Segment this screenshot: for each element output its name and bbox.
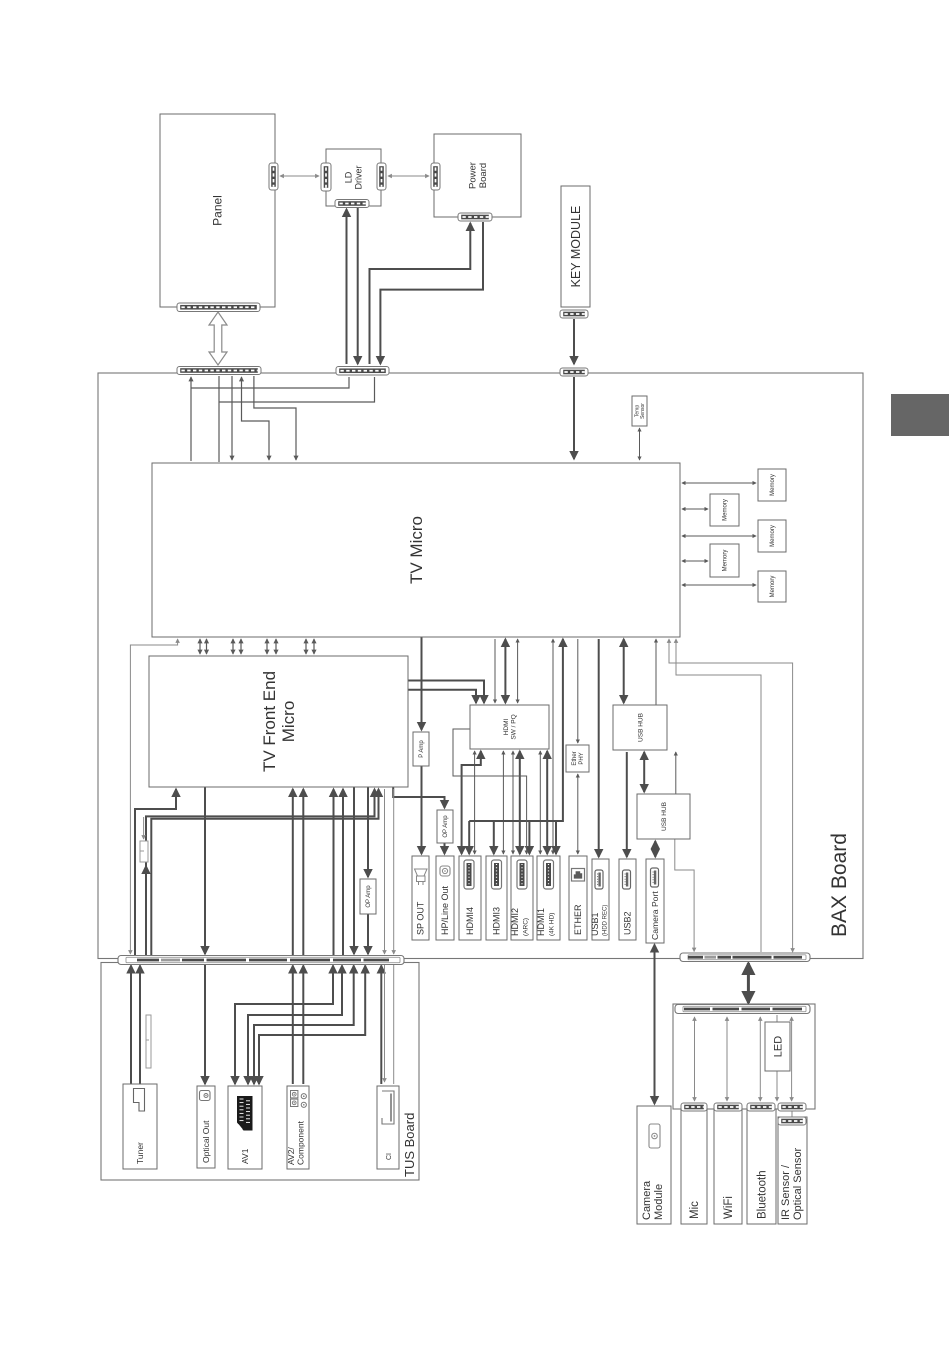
connector sub-board WiFi — [714, 1103, 742, 1111]
svg-text:ETHER: ETHER — [573, 904, 583, 935]
wire sub-board to IR Sensor — [791, 1017, 793, 1101]
board TUS Board — [101, 963, 419, 1181]
wire TUS connector to AV2 B — [302, 966, 304, 1085]
wire Panel to LD Driver — [280, 175, 319, 177]
wire TUS connector to Tuner A — [130, 966, 132, 1085]
svg-text:Memory: Memory — [723, 499, 729, 521]
wire LD Driver to Power Board — [388, 175, 429, 177]
wire KEY MODULE to BAX — [573, 319, 575, 364]
block Optical Out — [197, 1086, 215, 1168]
wire USB HUB1 to USB HUB2 thin — [675, 752, 677, 794]
svg-text:Tuner: Tuner — [135, 1142, 145, 1164]
svg-text:BAX Board: BAX Board — [828, 833, 851, 937]
wire TUS connector to CI dark — [380, 966, 382, 1085]
connector Power Board bottom — [458, 213, 492, 221]
wire TV Front End to HDMI SW b — [408, 690, 476, 703]
wire AV1 down C — [353, 787, 355, 954]
port ETHER — [569, 856, 587, 940]
block Temp Sensor — [632, 396, 647, 426]
wire TV Micro to USB1 — [598, 639, 600, 857]
part antenna link — [146, 1015, 151, 1068]
wire HDMI SW to HDMI1 thick — [546, 751, 548, 854]
connector LD Driver bottom — [335, 200, 369, 208]
wire TV Micro to USB HUB1 — [623, 639, 625, 703]
svg-text:Memory: Memory — [770, 576, 776, 598]
block P Amp — [413, 732, 429, 766]
wire TUS connector to AV1 4 — [259, 966, 365, 1085]
block AV1 — [228, 1086, 262, 1169]
svg-text:IR Sensor /: IR Sensor / — [780, 1164, 792, 1220]
svg-text:TV Micro: TV Micro — [407, 516, 426, 584]
wire TV Front End to HDMI SW a — [408, 681, 484, 704]
block AV2/Component — [287, 1086, 309, 1169]
wire USB HUB1 to USB HUB2 — [643, 752, 645, 792]
svg-text:Micro: Micro — [279, 701, 298, 743]
wire TV Micro to Memory 2 — [682, 508, 708, 510]
port HDMI1 — [537, 856, 560, 940]
wire TV Micro to HDMI1 long — [552, 639, 554, 854]
wire TV Micro - TV Front End pair 4 — [305, 639, 307, 654]
wire TUS connector to AV1 3 — [254, 966, 354, 1085]
svg-text:Module: Module — [653, 1184, 665, 1220]
wire AV1 up A — [333, 789, 335, 963]
connector sub-board IR — [778, 1103, 806, 1111]
svg-text:Power: Power — [468, 162, 479, 189]
wire Power Board to BAX B — [380, 222, 483, 364]
svg-text:HDMI: HDMI — [503, 719, 510, 736]
block Memory 3 — [758, 520, 786, 552]
port USB2 — [619, 859, 636, 940]
wire TV Front End to OP Amp 2 — [367, 787, 369, 877]
connector IR Sensor top — [778, 1117, 806, 1125]
block Camera Module — [637, 1106, 671, 1224]
wire TUS connector to CI thin A — [384, 965, 386, 1082]
wire HDMI SW to HDMI3 thin — [502, 751, 504, 854]
svg-text:Driver: Driver — [354, 165, 364, 189]
svg-text:OP Amp: OP Amp — [443, 815, 449, 838]
wire OP Amp 1 to HP/Line Out — [444, 843, 446, 854]
svg-text:(ARC): (ARC) — [523, 918, 530, 936]
connector sub-board Mic — [681, 1103, 707, 1111]
wire HDMI SW left jog to HDMI2 — [453, 729, 527, 854]
wire TV Micro to HDMI SW 2 — [504, 639, 506, 703]
wire TV Micro to Memory 5 — [682, 584, 756, 586]
svg-text:Camera: Camera — [641, 1180, 653, 1220]
block Memory 1 — [758, 469, 786, 501]
connector Panel bottom — [177, 303, 260, 312]
connector Panel right — [269, 163, 278, 190]
wire TV Micro L to BAX bottom connector 1 — [669, 639, 793, 952]
dark gray rectangle — [891, 394, 949, 436]
board BAX Board — [98, 373, 863, 959]
svg-text:Sensor: Sensor — [640, 403, 646, 419]
arrow Panel to BAX connector — [209, 312, 227, 365]
block LD Driver — [326, 149, 381, 206]
svg-text:LED: LED — [772, 1036, 784, 1057]
wire TV Micro to Memory 4 — [682, 560, 708, 562]
wire OP Amp 2 to TUS connector — [367, 914, 369, 954]
svg-text:Optical Sensor: Optical Sensor — [792, 1148, 804, 1220]
wire P Amp to SP OUT — [421, 766, 423, 854]
wire sub-board to Bluetooth — [759, 1017, 761, 1101]
wire Panel connector line B — [218, 376, 220, 462]
block Bluetooth — [747, 1109, 776, 1224]
svg-text:Board: Board — [478, 163, 489, 188]
wire HDMI SW to HDMI2 thin — [512, 751, 514, 854]
connector LD Driver right — [377, 163, 386, 190]
block CI slot — [377, 1086, 399, 1169]
port SP OUT — [412, 856, 429, 940]
port HDMI3 — [486, 856, 507, 940]
wire TV Front End left to TUS connector — [135, 789, 176, 956]
wire Panel connector line D — [242, 377, 270, 460]
wire Temp Sensor to TV Micro — [639, 428, 641, 460]
block USB HUB 1 — [613, 705, 667, 750]
wire TVMicro to Panel connector A — [190, 377, 192, 461]
wire sub-board to WiFi — [726, 1017, 728, 1101]
wire TV Micro to USB HUB1 thin — [655, 639, 657, 705]
svg-text:Mic: Mic — [689, 1201, 701, 1219]
block OP Amp 2 — [360, 879, 376, 914]
wire KEY MODULE to TV Micro — [573, 377, 575, 459]
port HDMI4 — [459, 856, 481, 940]
svg-text:OP Amp: OP Amp — [366, 885, 372, 908]
wire LD Driver to BAX up — [346, 209, 348, 364]
svg-text:AV2/: AV2/ — [286, 1147, 296, 1165]
block Memory 5 — [758, 571, 786, 602]
wire TV Micro to Memory 3 — [682, 535, 756, 537]
svg-text:USB2: USB2 — [623, 911, 633, 935]
wire part to TUS connector — [145, 866, 147, 956]
block Memory 2 — [710, 494, 739, 526]
wire HDMI SW to HDMI2 thick — [519, 751, 521, 854]
wire into IR blaster part — [143, 817, 145, 839]
wire USB HUB2 to Camera Port — [654, 841, 656, 857]
wire TV Front End to OP Amp 1 — [393, 787, 444, 808]
block Ether PHY — [566, 745, 589, 772]
wire Power Board to BAX A — [370, 223, 471, 364]
wire TUS connector to AV1 2 — [248, 966, 342, 1085]
wire Panel connector line E — [254, 376, 296, 460]
svg-text:SW / PQ: SW / PQ — [510, 714, 517, 739]
block TV Micro — [152, 463, 680, 637]
wire AV2 up A — [292, 789, 294, 963]
wire TV Front End mid down — [204, 787, 206, 954]
wire TV Micro - TV Front End pair 2 — [232, 639, 234, 654]
svg-text:TV Front End: TV Front End — [260, 671, 279, 772]
connector BAX bottom right — [680, 953, 810, 962]
wire TV Front End long L1 — [146, 789, 375, 956]
wire TV Micro to P Amp — [421, 637, 423, 730]
wire sub connector to IR connector — [791, 1111, 793, 1117]
wire Ether PHY to ETHER — [577, 774, 579, 854]
wire USB HUB1 to USB2 — [626, 752, 628, 857]
block Tuner — [123, 1084, 157, 1169]
block USB HUB 2 — [637, 794, 690, 839]
svg-text:TUS Board: TUS Board — [402, 1113, 417, 1177]
connector BAX/TUS main — [118, 956, 404, 965]
connector sub-board top — [675, 1005, 810, 1014]
connector BAX top panel — [177, 367, 261, 375]
block HDMI SW / PQ — [470, 705, 549, 749]
svg-text:PHY: PHY — [579, 752, 585, 764]
connector sub-board Bluetooth — [747, 1103, 775, 1111]
block Panel — [160, 114, 275, 307]
port HDMI2 — [511, 856, 533, 940]
svg-text:USB1: USB1 — [590, 912, 600, 936]
connector KEY MODULE bottom — [560, 310, 588, 318]
wire TV Micro to HDMI SW 1 — [494, 639, 496, 703]
svg-text:Memory: Memory — [770, 474, 776, 496]
svg-text:KEY MODULE: KEY MODULE — [569, 206, 583, 288]
wire USB HUB2 to BAX bottom connector — [675, 839, 694, 952]
connector BAX top LD/Power — [336, 367, 389, 376]
block TV Front End Micro — [149, 656, 408, 787]
wire TV Micro HDMI trunk — [469, 639, 563, 821]
svg-text:SP OUT: SP OUT — [416, 901, 426, 935]
wire BAX to sub-board — [747, 963, 750, 1003]
svg-text:(HDD REC): (HDD REC) — [603, 905, 609, 936]
wire TV Micro - TV Front End pair 3 — [266, 639, 268, 654]
svg-text:P Amp: P Amp — [419, 740, 425, 758]
port Camera Port — [646, 859, 664, 943]
wire HDMI SW to HDMI4 thick — [462, 751, 481, 854]
svg-text:Bluetooth: Bluetooth — [757, 1170, 769, 1219]
port HP/Line Out — [436, 856, 454, 940]
wire Panel connector line C — [231, 376, 233, 460]
port USB1 — [592, 859, 609, 940]
svg-text:HDMI3: HDMI3 — [492, 907, 502, 935]
wire TV Micro left L to TUS connector — [130, 639, 177, 954]
svg-text:USB HUB: USB HUB — [637, 713, 644, 742]
svg-text:HDMI4: HDMI4 — [465, 907, 475, 935]
wire TUS connector to Tuner B — [139, 966, 141, 1085]
wire AV2 up B — [302, 789, 304, 963]
svg-text:WiFi: WiFi — [723, 1196, 735, 1219]
wire TUS connector to AV2 A — [292, 966, 294, 1085]
part IR blaster — [140, 841, 148, 862]
block Memory 4 — [710, 544, 739, 577]
wire TUS connector to AV1 1 — [235, 966, 333, 1085]
svg-text:Memory: Memory — [723, 550, 729, 572]
wire Camera Port to Camera Module — [654, 945, 656, 1105]
wire TV Micro to HDMI SW 3 — [517, 639, 519, 703]
wire TVFE to connector thin B — [393, 789, 395, 954]
wire TV Front End long L2 — [151, 789, 378, 956]
wire TUS connector to Optical Out — [204, 963, 206, 1084]
svg-text:Optical Out: Optical Out — [201, 1120, 211, 1163]
block OP Amp 1 — [437, 810, 453, 843]
wire AV1 up B — [342, 789, 344, 963]
block Mic — [681, 1109, 707, 1224]
svg-text:Component: Component — [296, 1120, 306, 1165]
svg-text:Panel: Panel — [211, 195, 225, 226]
wire TV Micro L to BAX bottom connector 2 — [676, 639, 761, 952]
svg-text:HDMI1: HDMI1 — [536, 908, 546, 936]
wire sub-board to LED — [776, 1015, 778, 1022]
block IR Sensor / Optical Sensor — [778, 1117, 807, 1224]
svg-text:Ether: Ether — [572, 751, 578, 765]
svg-text:LD: LD — [344, 171, 354, 183]
svg-text:AV1: AV1 — [240, 1148, 250, 1164]
block WiFi — [714, 1109, 742, 1224]
wire HDMI SW to HDMI4 thin — [474, 751, 476, 854]
block Power Board — [434, 134, 521, 217]
svg-text:(4K HD): (4K HD) — [549, 913, 556, 936]
svg-text:Memory: Memory — [770, 525, 776, 547]
wire TVFE to connector thin A — [384, 789, 386, 954]
svg-text:HP/Line Out: HP/Line Out — [440, 885, 450, 935]
block KEY MODULE — [561, 186, 590, 307]
wire TUS connector to CI thin B — [393, 965, 395, 1084]
wire TV Micro - TV Front End pair 1 — [199, 639, 201, 654]
wire HDMI SW to HDMI1 thin — [539, 751, 541, 854]
connector Power Board left — [431, 163, 440, 190]
wire sub-board to Mic — [694, 1017, 696, 1101]
svg-text:CI: CI — [386, 1153, 393, 1160]
block LED — [765, 1022, 790, 1071]
board sensor sub-board — [673, 1004, 815, 1109]
wire TV Micro to Ether PHY — [577, 639, 579, 743]
svg-text:Camera Port: Camera Port — [650, 891, 660, 940]
connector BAX top KEY — [560, 368, 588, 376]
wire LD Driver to BAX down — [357, 208, 359, 364]
connector LD Driver left — [321, 163, 331, 191]
wire TV Micro to Memory 1 — [682, 482, 756, 484]
svg-text:HDMI2: HDMI2 — [510, 908, 520, 936]
svg-text:USB HUB: USB HUB — [661, 802, 668, 831]
